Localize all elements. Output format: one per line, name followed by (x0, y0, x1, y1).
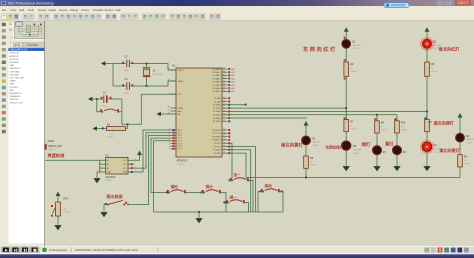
bottom white edge + taskbar (0, 253, 474, 255)
svg-text:LED-YELLOW: LED-YELLOW (10, 78, 25, 80)
resistor R10 (395, 121, 400, 133)
svg-text:29: 29 (168, 107, 170, 109)
wire P1.4 to button bus (154, 141, 171, 212)
C1 labels (103, 92, 108, 108)
U1 right pin labels (212, 68, 221, 155)
wire P1.2 to rain switch (129, 135, 171, 204)
svg-text:Graph: Graph (49, 8, 57, 12)
wire K3 right down to bus (220, 193, 226, 213)
svg-text:A0: A0 (107, 159, 109, 162)
svg-text:<TEXT>: <TEXT> (48, 148, 57, 151)
wire P1.0 to U2 SDA (134, 130, 171, 172)
svg-text:RESPACK-8: RESPACK-8 (10, 92, 23, 95)
wire arrow to D6 (305, 128, 307, 136)
X1 labels (153, 70, 163, 76)
node net blue dot (245, 104, 247, 106)
wire P2.6 net (222, 117, 307, 119)
svg-text:RES: RES (10, 90, 15, 92)
wire D1 to R2 (345, 48, 347, 62)
svg-text:<TEXT>: <TEXT> (105, 179, 112, 182)
left tool column (2, 23, 6, 133)
D4 labels (434, 144, 443, 150)
svg-text:LED-RED: LED-RED (10, 74, 20, 76)
button K5 minus-one (227, 202, 229, 204)
svg-text:SCL: SCL (123, 168, 127, 170)
svg-text:<TEXT>: <TEXT> (312, 144, 319, 147)
svg-text:P0.2/AD2: P0.2/AD2 (213, 74, 221, 77)
U1 left pin labels (178, 69, 185, 151)
wire U2 ground (97, 172, 100, 175)
switch state squares (105, 202, 127, 205)
svg-text:<TEXT>: <TEXT> (177, 163, 184, 166)
crystal X1 (143, 64, 151, 87)
wire C1 left (97, 98, 103, 100)
power arrow D1 (345, 31, 347, 39)
svg-text:加一: 加一 (233, 172, 242, 177)
wire net to R10 (396, 115, 398, 121)
LED D4 lit (420, 140, 434, 154)
svg-text:绿灯: 绿灯 (362, 141, 371, 148)
svg-text:调时: 调时 (171, 184, 179, 189)
svg-text:CRYSTAL: CRYSTAL (153, 73, 163, 76)
svg-text:Design: Design (38, 8, 47, 12)
svg-text:P2.5/A13: P2.5/A13 (213, 114, 221, 117)
D3 labels (433, 41, 442, 47)
svg-text:CAP-ELEC: CAP-ELEC (10, 67, 21, 70)
svg-text:8: 8 (169, 148, 170, 150)
svg-text:D: D (9, 27, 12, 32)
wire R7 to D5 (345, 132, 347, 141)
svg-text:File: File (2, 8, 7, 12)
power arrow D3 (426, 31, 428, 39)
svg-text:AD7: AD7 (231, 90, 234, 93)
svg-text:ISIS Professional (Animating): ISIS Professional (Animating) (8, 2, 54, 6)
title bar (0, 0, 474, 6)
svg-text:AD5: AD5 (231, 84, 234, 87)
blue badge overlay (384, 3, 409, 8)
power arrow RV1 top (57, 196, 59, 202)
canvas (45, 21, 474, 246)
ground under switch (103, 209, 105, 212)
wire XTAL2 bottom (113, 81, 176, 86)
svg-text:黄灯: 黄灯 (385, 140, 394, 147)
potentiometer RV1 body (56, 202, 61, 216)
wire K4 right down to bus (248, 181, 253, 213)
gray TEXT placeholder labels (64, 47, 473, 214)
svg-text:南北向红灯: 南北向红灯 (439, 46, 461, 53)
wire K5 left branch (226, 202, 228, 204)
svg-text:<TEXT>: <TEXT> (64, 211, 71, 214)
svg-text:P2.4/A12: P2.4/A12 (213, 110, 221, 113)
wire K2 to K3 (185, 192, 204, 194)
resistor R4 (458, 155, 463, 167)
resistor R7 (344, 120, 349, 132)
wire net to R7 (345, 108, 347, 119)
svg-text:AT89C52: AT89C52 (10, 55, 20, 58)
D2 labels (466, 135, 474, 141)
svg-text:P2.0/A8: P2.0/A8 (214, 97, 221, 100)
svg-text:P3.5/T1: P3.5/T1 (214, 146, 221, 148)
LED D6 (302, 136, 311, 145)
svg-text:GND: GND (107, 172, 112, 174)
D6 labels (312, 138, 321, 144)
svg-text:C: C (9, 21, 12, 26)
ground column B (345, 163, 347, 166)
wire reset button left branch (97, 99, 103, 112)
button K6 start (262, 191, 264, 193)
svg-text:东西向绿灯: 东西向绿灯 (326, 145, 344, 150)
resistor R9 (375, 121, 380, 133)
wire U2 left pins common (99, 160, 101, 172)
U1 P2 pin stubs and state squares (222, 97, 230, 122)
U2 pin labels (107, 159, 127, 174)
ground column C (376, 163, 378, 166)
junction crystal bottom (146, 85, 148, 87)
EA pin tie arrow (160, 113, 176, 115)
R1 left lead with ground arrow (96, 128, 107, 130)
svg-text:Edit: Edit (20, 8, 25, 12)
svg-text:雨水检测: 雨水检测 (107, 193, 123, 199)
wire R5 down to net (426, 76, 428, 119)
svg-text:P0.1/AD1: P0.1/AD1 (213, 71, 221, 74)
wire R9 to D7 (376, 133, 378, 146)
svg-text:5: 5 (135, 171, 136, 173)
svg-text:7: 7 (169, 145, 170, 147)
svg-text:SPEAKER: SPEAKER (10, 95, 21, 98)
wire D8 to ground (396, 155, 398, 164)
wire D7 to ground (376, 155, 378, 164)
R8 blue state square (424, 117, 426, 119)
wire D3 to R5 (426, 48, 428, 62)
svg-text:6: 6 (135, 167, 136, 169)
junction button bus ground (198, 211, 200, 213)
menu bar (0, 6, 474, 13)
svg-text:6: 6 (169, 142, 170, 144)
U2 pin stubs (100, 160, 134, 172)
svg-text:<TEXT>: <TEXT> (434, 151, 441, 154)
svg-text:P3.6/WR: P3.6/WR (213, 150, 221, 152)
svg-text:ANIMATING: 00:00:15.750000 (CP: ANIMATING: 00:00:15.750000 (CPU load 11%… (75, 248, 138, 252)
LED D3 lit (420, 37, 434, 51)
svg-text:南北向绿灯: 南北向绿灯 (434, 120, 454, 126)
svg-text:LED-RED: LED-RED (353, 149, 362, 151)
C1 state squares (101, 97, 112, 99)
svg-text:<TEXT>: <TEXT> (381, 129, 388, 132)
LED D2 (456, 133, 465, 142)
svg-text:LED-RED: LED-RED (312, 142, 321, 144)
svg-text:P0.0/AD0: P0.0/AD0 (213, 68, 221, 71)
svg-text:P0.3/AD3: P0.3/AD3 (213, 77, 221, 80)
svg-text:AT24C02: AT24C02 (105, 176, 116, 179)
U1 right pin numbers (223, 68, 225, 154)
wire P2.4 to D3 column (222, 110, 427, 112)
R7 top state square (344, 117, 346, 119)
resistor R8 (425, 120, 430, 132)
junction K5 left (225, 202, 227, 204)
D1 labels (352, 41, 361, 47)
svg-text:Source: Source (59, 8, 68, 12)
C3 state squares (122, 84, 133, 86)
U2 pin numbers (100, 159, 135, 173)
svg-text:LAMP: LAMP (10, 80, 16, 83)
svg-text:View: View (11, 8, 17, 12)
svg-text:R10: R10 (401, 122, 406, 125)
RV1 wiper marks (52, 207, 55, 214)
svg-text:A1: A1 (107, 163, 109, 166)
svg-text:P3.4/T0: P3.4/T0 (214, 143, 221, 145)
junction crystal top (146, 63, 148, 65)
svg-text:P0.5/AD5: P0.5/AD5 (213, 84, 221, 87)
svg-text:7: 7 (135, 163, 136, 165)
LED D1 (342, 39, 351, 48)
svg-text:P0.7/AD7: P0.7/AD7 (213, 90, 221, 93)
ground column E (426, 163, 428, 166)
overview panel (14, 20, 46, 40)
capacitor C2 (127, 60, 130, 67)
capacitor C1 electrolytic (104, 95, 107, 102)
wire D5 to ground (345, 150, 347, 163)
R2 bottom state square (344, 78, 346, 80)
svg-text:BUZZER: BUZZER (10, 62, 19, 64)
wire D4 to ground (426, 152, 428, 164)
wire P3.7 to bottom bus (222, 153, 246, 177)
photoresistor LDR1 fragment at canvas edge (45, 144, 47, 150)
svg-text:<TEXT>: <TEXT> (352, 47, 359, 50)
svg-text:Library: Library (81, 8, 90, 12)
wire K6 left down to bus (258, 192, 263, 213)
svg-text:LDR1: LDR1 (48, 139, 55, 143)
junction R1 top (127, 123, 129, 125)
svg-text:RV1: RV1 (64, 198, 69, 201)
U1 P0 pin stubs, state squares and net labels (222, 68, 235, 93)
svg-text:P0.4/AD4: P0.4/AD4 (213, 81, 221, 84)
LED D7 (373, 146, 382, 155)
svg-text:DEVICES: DEVICES (28, 44, 39, 47)
wire reset node vertical (121, 99, 123, 124)
svg-text:AD6: AD6 (231, 87, 234, 90)
svg-text:P3.3/INT1: P3.3/INT1 (212, 140, 221, 142)
svg-text:<TEXT>: <TEXT> (350, 70, 357, 73)
svg-text:调分: 调分 (206, 184, 214, 189)
svg-text:<TEXT>: <TEXT> (353, 152, 360, 155)
wire D6 to R6 (305, 145, 307, 156)
wire RV1 bottom (57, 216, 59, 222)
svg-text:P0.6/AD6: P0.6/AD6 (213, 87, 221, 90)
wire P2.5 to LED columns (222, 114, 397, 116)
wire switch left to ground (104, 205, 108, 210)
ground under U2 (96, 175, 98, 178)
svg-text:<TEXT>: <TEXT> (350, 128, 357, 131)
wire crystal left vertical (112, 64, 114, 87)
op-amp U1 AT89C52 MCU body (172, 64, 222, 163)
wire P2.2 net stub (222, 104, 246, 106)
wire XTAL1 top (113, 64, 176, 71)
wire arrow to D2 (459, 120, 461, 133)
svg-text:P2.3/A11: P2.3/A11 (213, 107, 221, 110)
toolbar (0, 13, 474, 21)
wire R4 to bottom bus (459, 167, 461, 178)
svg-text:AD0: AD0 (231, 68, 234, 71)
status bar (0, 246, 474, 253)
resistor R5 (425, 62, 430, 76)
U1 left pin stubs (171, 70, 177, 149)
svg-text:南北向黄灯: 南北向黄灯 (440, 147, 460, 153)
svg-text:30pF: 30pF (124, 92, 129, 94)
svg-text:↔: ↔ (10, 34, 14, 39)
svg-text:<TEXT>: <TEXT> (401, 129, 408, 132)
button blue state squares (166, 179, 283, 203)
svg-text:30pF: 30pF (124, 70, 129, 72)
reset button (101, 111, 103, 113)
svg-text:A2: A2 (107, 167, 109, 170)
svg-text:0 Message(s): 0 Message(s) (49, 248, 67, 252)
R6 labels (310, 157, 314, 163)
wire D2 to R4 (459, 142, 461, 155)
wire R6 to bottom bus (305, 168, 307, 177)
svg-text:LED-RED: LED-RED (466, 139, 474, 141)
wire P3.4 down to K4 (222, 143, 232, 180)
button K3 set-minute (203, 192, 205, 194)
power arrow left of C1 (92, 98, 97, 100)
R10 top state square (394, 118, 396, 120)
RV1 labels (64, 198, 69, 211)
svg-text:AD3: AD3 (231, 77, 234, 80)
R10 labels (401, 122, 406, 129)
svg-text:↕: ↕ (10, 40, 12, 45)
resistor R1 (107, 127, 126, 131)
svg-text:PSEN: PSEN (178, 108, 184, 110)
wire reset to RST pin (122, 94, 176, 124)
capacitor C3 (127, 82, 130, 89)
resistor R6 (304, 156, 309, 168)
svg-text:30: 30 (168, 110, 170, 112)
svg-text:POT-HG: POT-HG (10, 87, 19, 89)
power arrow D6 column (305, 125, 307, 128)
svg-text:Tools: Tools (28, 8, 35, 12)
wire R1 right lead up (126, 124, 128, 128)
wire ground stem buttons (198, 212, 200, 215)
svg-text:S: S (439, 248, 442, 253)
power arrow D2 column (459, 117, 461, 120)
LED D5 (342, 141, 351, 150)
wire button ground bus (154, 211, 284, 213)
wire K6 right down to bus (279, 192, 283, 213)
svg-text:<TEXT>: <TEXT> (310, 164, 317, 167)
chip U2 AT24C02 body (105, 154, 128, 179)
svg-text:PNP: PNP (10, 84, 15, 86)
C2 labels (124, 55, 129, 72)
svg-text:XTAL2: XTAL2 (178, 80, 185, 83)
junction D3 column (426, 111, 428, 113)
wire K5 right down to bus (244, 203, 249, 213)
resistor R2 (344, 62, 349, 76)
svg-text:LED-RED: LED-RED (352, 45, 361, 47)
svg-text:P2.2/A10: P2.2/A10 (213, 104, 221, 107)
U2 state squares (131, 163, 133, 173)
svg-text:CRYSTAL: CRYSTAL (10, 70, 21, 73)
wire R8 to D4 (426, 132, 428, 143)
wire P1.1 to U2 SCL (134, 133, 171, 168)
wire C1 right to node (108, 98, 122, 100)
svg-text:AD1: AD1 (231, 71, 234, 74)
D1 state squares (344, 37, 346, 61)
svg-text:TORCH_LDR: TORCH_LDR (10, 102, 24, 104)
wire LDR net to U2 (45, 159, 99, 161)
svg-text:AD2: AD2 (231, 74, 234, 77)
RV1 state squares (51, 205, 53, 217)
LED D8 (393, 146, 402, 155)
U1 left pin numbers (168, 69, 170, 150)
switch SW1 (107, 200, 129, 205)
svg-text:<TEXT>: <TEXT> (466, 142, 473, 145)
R9 top state square (374, 118, 376, 120)
svg-text:P3.2/INT0: P3.2/INT0 (212, 136, 221, 138)
rotate controls (9, 21, 14, 45)
junction D1 column (345, 107, 347, 109)
D5 labels (353, 145, 362, 151)
C2 state squares (122, 62, 133, 64)
junction reset node (96, 98, 98, 100)
svg-text:L: L (19, 43, 21, 47)
svg-text:74HC138: 74HC138 (10, 53, 20, 55)
ground under button bus (198, 215, 200, 218)
svg-text:P2.6/A14: P2.6/A14 (213, 117, 221, 120)
system tray icons (424, 247, 474, 254)
svg-text:南北向黄灯: 南北向黄灯 (281, 141, 304, 148)
svg-text:东西向红灯: 东西向红灯 (303, 45, 337, 53)
svg-text:BUTTON: BUTTON (10, 59, 19, 61)
junction column C (376, 114, 378, 116)
LDR1 labels (48, 139, 62, 151)
svg-text:SWITCH: SWITCH (10, 99, 19, 101)
svg-text:<TEXT>: <TEXT> (433, 47, 440, 50)
svg-text:P3.0/RXD: P3.0/RXD (212, 130, 221, 132)
svg-text:减一: 减一 (229, 194, 238, 199)
wire P3.5 down to bus (222, 147, 256, 213)
wire R10 to D8 (396, 133, 398, 146)
R1 labels (107, 124, 114, 136)
U1 P1 pin state squares (173, 129, 175, 150)
svg-text:启动: 启动 (265, 183, 273, 188)
svg-text:Debug: Debug (70, 8, 78, 12)
svg-text:TORCH_LDR: TORCH_LDR (48, 146, 62, 148)
svg-text:22uF: 22uF (103, 106, 108, 108)
device list (9, 47, 46, 243)
U1 P3 pin stubs and state squares (222, 129, 230, 154)
P L buttons and DEVICES header (14, 43, 19, 47)
svg-text:U1: U1 (172, 64, 176, 68)
svg-text:System: System (105, 8, 115, 12)
svg-text:AT89C52: AT89C52 (177, 159, 188, 163)
wire bottom LED bus (246, 177, 460, 179)
button K2 set-time (168, 192, 170, 194)
wire net to R9 (376, 115, 378, 121)
svg-text:P2.7/A15: P2.7/A15 (213, 120, 221, 123)
R5 labels (431, 63, 435, 70)
svg-text:<TEXT>: <TEXT> (107, 136, 114, 139)
svg-text:Template: Template (93, 8, 104, 12)
wire P1.3 to button K1 (151, 138, 171, 192)
wire P2.3 to D1 column (222, 107, 346, 109)
power arrow U2 VCC (139, 155, 141, 157)
svg-text:<TEXT>: <TEXT> (464, 163, 471, 166)
window buttons (437, 1, 444, 5)
ground column D (396, 163, 398, 166)
svg-text:Help: Help (116, 8, 122, 12)
wire P3.6 down to bus (222, 150, 251, 212)
wire R2 down to net (345, 76, 347, 119)
svg-text:ALE: ALE (178, 110, 182, 113)
